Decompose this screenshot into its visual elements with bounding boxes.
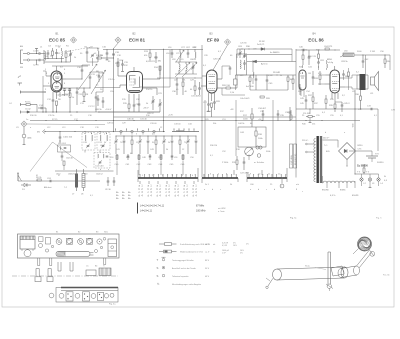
svg-text:+100 V: +100 V (105, 109, 112, 111)
component pair (172, 78, 188, 95)
test point diamond (21, 121, 105, 127)
svg-text:L4=L2=L6=L9=L7=L11: L4=L2=L6=L9=L7=L11 (140, 205, 165, 208)
wire (67, 87, 91, 88)
resistor R11 (96, 55, 114, 59)
bank labels (56, 174, 104, 176)
cluster (299, 84, 327, 114)
resistor R26 (222, 85, 237, 89)
fig5ab label (109, 304, 116, 306)
tube pins (120, 67, 150, 102)
cathode components (329, 102, 343, 112)
gang drop (95, 92, 103, 112)
svg-text:88 V: 88 V (205, 260, 210, 262)
capacitor C105 (59, 132, 73, 144)
rectifier label (358, 145, 364, 151)
heater taps (327, 181, 355, 188)
svg-text:C33 40: C33 40 (150, 123, 157, 125)
svg-text:C15 1n: C15 1n (108, 79, 114, 81)
side centerline (12, 275, 118, 277)
svg-text:R10 30: R10 30 (30, 115, 37, 117)
grid components (312, 71, 326, 85)
coil box 3 (94, 153, 110, 169)
svg-text:5k: 5k (104, 142, 106, 144)
test point diamond (70, 37, 76, 43)
fig label (376, 218, 382, 220)
electrolytic can (24, 250, 31, 257)
tube label ECC85 (49, 33, 66, 43)
svg-text:ECC 85: ECC 85 (49, 38, 66, 43)
note small (218, 207, 226, 213)
svg-text:5k: 5k (280, 75, 282, 77)
label (343, 103, 350, 105)
pointer rod (328, 252, 331, 284)
capacitor C4 (45, 50, 49, 59)
diode D0 (20, 109, 31, 114)
wire (44, 58, 71, 63)
mains transformer top (20, 236, 35, 251)
component cluster (115, 154, 186, 175)
spring drum (356, 235, 373, 252)
switch contact row (114, 129, 166, 135)
capacitor C34 (258, 108, 267, 121)
pointer slider (331, 266, 344, 276)
capacitor C64 (255, 75, 258, 90)
bottom outline (56, 288, 118, 303)
variable capacitor gang (77, 64, 97, 90)
coil L2 (58, 47, 62, 63)
svg-text:C15 5k: C15 5k (48, 115, 54, 117)
side right parts (86, 268, 111, 276)
svg-text:5k: 5k (230, 184, 232, 186)
svg-text:Cu 50/350: Cu 50/350 (357, 166, 368, 168)
voltage table boxes (290, 144, 297, 168)
svg-text:c: c (220, 189, 221, 191)
svg-text:FM: FM (20, 67, 23, 69)
tube socket 5 (97, 239, 102, 244)
coil L3 (87, 48, 99, 62)
capacitor C44b (300, 95, 307, 109)
tube socket 2 (67, 238, 73, 244)
wire (43, 71, 46, 86)
svg-text:50/350: 50/350 (377, 162, 384, 164)
wire bus (100, 111, 160, 113)
wire (103, 49, 203, 50)
tuning capacitor drum (56, 251, 94, 256)
wire (237, 49, 292, 72)
wire (55, 150, 114, 171)
wire (157, 78, 202, 79)
svg-text:AZ1 1n: AZ1 1n (261, 62, 269, 65)
label (353, 123, 355, 128)
wire (234, 168, 287, 178)
svg-text:B250: B250 (358, 145, 364, 147)
capacitor C24 (47, 178, 52, 182)
legend row1 (159, 243, 249, 248)
wire (247, 51, 292, 55)
svg-text:R30 1M: R30 1M (210, 145, 217, 147)
svg-text:+85 V: +85 V (143, 108, 149, 110)
svg-text:ca. V: ca. V (205, 252, 210, 254)
svg-text:d: d (100, 169, 101, 171)
wire (82, 65, 103, 92)
winding labels (322, 190, 359, 198)
wire (296, 49, 340, 50)
wire (247, 75, 296, 76)
svg-text:E92/80: E92/80 (322, 190, 329, 192)
svg-text:25k: 25k (312, 124, 315, 126)
tube ECL86 (330, 70, 340, 93)
mains transformer core (317, 136, 323, 183)
capacitor C42 (362, 54, 369, 68)
label (115, 63, 119, 65)
svg-text:R9 2k: R9 2k (36, 177, 42, 179)
label (143, 108, 149, 110)
svg-text:0,5 W: 0,5 W (222, 245, 227, 247)
ground (369, 186, 372, 187)
svg-text:5k: 5k (166, 149, 168, 151)
trimmer C6 (69, 50, 73, 62)
coil bar row (172, 129, 199, 132)
svg-text:48 V: 48 V (205, 276, 210, 278)
svg-text:R1 1k: R1 1k (25, 102, 31, 104)
fig5b label (383, 275, 389, 277)
svg-text:C47 4700: C47 4700 (240, 173, 250, 175)
resistor R34 (384, 54, 391, 68)
switch capacitor bank (114, 136, 197, 155)
coil (253, 72, 254, 84)
label (257, 41, 266, 46)
svg-text:AM abst.: AM abst. (44, 186, 52, 189)
note bar (137, 203, 139, 214)
bus end arrow (37, 130, 46, 134)
capacitor CF30 (105, 177, 115, 191)
svg-text:C30 40: C30 40 (127, 119, 135, 121)
resistor R1 (52, 48, 54, 59)
svg-text:C64 12: C64 12 (96, 174, 104, 176)
tube EM84 triode (299, 65, 306, 97)
fig label (290, 218, 297, 220)
chassis top view outline (18, 234, 120, 258)
tube ECC85 (51, 71, 62, 92)
svg-text:ca. W: ca. W (205, 244, 210, 246)
resistor R13 (144, 50, 151, 63)
ground (23, 143, 26, 144)
wire bus (45, 131, 114, 132)
junction (113, 131, 164, 132)
svg-text:C53 5k: C53 5k (301, 50, 307, 52)
wire (222, 88, 245, 95)
svg-text:ECH 81: ECH 81 (129, 38, 146, 43)
svg-text:240 V~: 240 V~ (323, 138, 330, 140)
svg-text:2x41,71: 2x41,71 (257, 44, 265, 46)
resistor R6 (56, 99, 62, 112)
svg-text:C105 100: C105 100 (63, 137, 73, 139)
wire (138, 168, 247, 178)
wire (20, 91, 46, 94)
capacitor C5 (55, 49, 58, 59)
wire (201, 45, 203, 178)
svg-text:R80 170: R80 170 (308, 56, 317, 58)
svg-text:c: c (266, 189, 267, 191)
svg-text:E10/81: E10/81 (352, 195, 359, 197)
svg-text:1n: 1n (26, 119, 28, 121)
tuning shaft (338, 266, 360, 278)
svg-text:C17 12: C17 12 (88, 106, 95, 108)
svg-text:Anschluß rechts bei Tonab.: Anschluß rechts bei Tonab. (172, 267, 197, 270)
resistor R80 (308, 50, 320, 62)
svg-text:C34 467: C34 467 (258, 108, 267, 110)
svg-text:U(B): U(B) (27, 138, 32, 140)
oscillator gang (176, 50, 184, 63)
wire (237, 49, 296, 178)
capacitor C35 (277, 110, 285, 121)
pulley bottom (326, 284, 333, 291)
component (63, 161, 65, 170)
capacitor C19 (121, 60, 129, 71)
svg-text:mit UKW: mit UKW (218, 207, 226, 210)
svg-text:10%: 10% (233, 245, 237, 247)
label pair (127, 119, 148, 121)
svg-text:R7 25: R7 25 (52, 119, 58, 121)
label (377, 162, 384, 164)
capacitor C68 (95, 95, 104, 111)
resistor R36 (355, 90, 362, 110)
wire (140, 50, 170, 87)
svg-text:Z 305: Z 305 (370, 51, 376, 53)
legend row4 (157, 266, 210, 270)
svg-text:6,3 V~: 6,3 V~ (330, 195, 337, 197)
dial cylinder (273, 267, 349, 280)
svg-text:5k: 5k (168, 142, 170, 144)
svg-text:B1: B1 (56, 232, 58, 234)
note line 1 (140, 205, 205, 208)
switch wafer bar 1 (138, 174, 198, 182)
small circles (45, 238, 105, 253)
wire (377, 109, 379, 151)
svg-text:L4=L9=L11: L4=L9=L11 (140, 210, 153, 213)
top labels (56, 231, 108, 234)
pilot lamp 3 (377, 174, 384, 186)
heater winding (323, 181, 356, 183)
svg-text:C31 40: C31 40 (140, 119, 148, 121)
pointer line (64, 47, 90, 52)
coil (327, 60, 328, 70)
component (285, 110, 292, 119)
svg-text:EF 89: EF 89 (207, 38, 220, 43)
svg-text:Teilweise kapazitiv: Teilweise kapazitiv (172, 275, 188, 278)
svg-text:c: c (302, 191, 303, 193)
svg-text:C5 42: C5 42 (25, 109, 31, 111)
capacitor C21 (151, 52, 162, 63)
svg-text:4n7 100: 4n7 100 (246, 86, 254, 88)
svg-text:S: S (157, 266, 159, 270)
resistor R19 (232, 156, 238, 170)
tube label EF89 (207, 33, 220, 43)
arrow symbol (17, 173, 21, 182)
tube pins (201, 76, 222, 101)
capacitor C13 (76, 87, 83, 105)
switch wafer bar 2 (202, 174, 238, 183)
tube socket 1 (56, 239, 62, 245)
label skala (305, 266, 326, 270)
svg-text:C04 R79: C04 R79 (324, 46, 333, 48)
ground (35, 49, 38, 55)
test cap (289, 107, 292, 121)
svg-text:Netz: Netz (104, 231, 108, 234)
svg-text:C83 5k: C83 5k (341, 61, 349, 63)
wire bus (114, 116, 297, 118)
svg-text:C68 5k: C68 5k (95, 109, 103, 111)
wire (222, 66, 231, 79)
svg-text:5k: 5k (100, 55, 102, 57)
tuning gang C8 (86, 48, 95, 62)
svg-text:U (ZF 460k): U (ZF 460k) (291, 155, 293, 165)
mounting legs (38, 258, 106, 266)
secondary wire (323, 138, 339, 148)
value labels (26, 51, 378, 193)
svg-text:5%: 5% (240, 253, 243, 255)
capacitor C47 (240, 157, 250, 175)
svg-text:100 MHz: 100 MHz (196, 210, 206, 213)
speaker frame (108, 239, 117, 257)
wire (356, 151, 373, 156)
coil L22 (193, 47, 197, 60)
wire (354, 150, 378, 175)
diode D1 (21, 183, 31, 191)
svg-text:C26 170: C26 170 (213, 59, 222, 61)
wire (163, 49, 165, 131)
capacitor C40 (299, 47, 304, 52)
output transformer (357, 55, 368, 90)
svg-text:C5: C5 (86, 266, 88, 268)
resistor R4 (20, 102, 37, 113)
svg-text:1k: 1k (50, 56, 52, 58)
wire (18, 180, 100, 182)
diode D2 (238, 46, 265, 50)
cluster right (341, 61, 350, 90)
tube EF89 (207, 70, 218, 93)
grid label (45, 69, 66, 93)
bottom parts (49, 292, 114, 301)
fuse (384, 176, 388, 182)
primary winding (314, 139, 316, 182)
pot box (238, 127, 266, 147)
legend row5 (157, 274, 210, 278)
svg-text:0,5M: 0,5M (268, 75, 273, 77)
svg-text:S: S (157, 274, 159, 278)
diode D3 (253, 60, 269, 65)
label (240, 96, 271, 100)
capacitor C12 (47, 97, 54, 112)
wire (40, 54, 44, 61)
coupling diagonal (30, 142, 87, 172)
svg-text:R9 64R: R9 64R (273, 72, 281, 74)
capacitor C67 (186, 47, 191, 58)
small rect (46, 238, 51, 245)
label (391, 110, 396, 112)
tube pins (325, 66, 346, 102)
svg-text:Fig. 5a: Fig. 5a (109, 304, 116, 306)
side labels (86, 265, 105, 268)
cord hook (266, 278, 273, 288)
wire (52, 62, 88, 67)
svg-text:d: d (274, 189, 275, 191)
svg-text:+88 V: +88 V (206, 111, 212, 113)
wire (250, 89, 288, 91)
resistor R2 (65, 50, 67, 62)
tube socket 4 (87, 238, 93, 244)
svg-text:96 V: 96 V (205, 268, 210, 270)
svg-text:2k: 2k (74, 57, 76, 59)
svg-text:L60 C61: L60 C61 (58, 143, 67, 145)
svg-text:C44 5k: C44 5k (238, 123, 244, 125)
wire (236, 100, 273, 178)
tube socket 3 (78, 239, 84, 245)
svg-text:220 V~: 220 V~ (302, 140, 309, 142)
coil box 2 (97, 133, 110, 151)
svg-text:C28 40: C28 40 (107, 123, 114, 125)
wire (20, 91, 46, 93)
oscillator coils (172, 59, 197, 82)
oscillator cap C27 (171, 50, 174, 59)
svg-text:M2-D: M2-D (327, 59, 333, 61)
cluster L60 (58, 143, 71, 152)
antenna plug contacts (27, 52, 39, 61)
svg-text:C25 80: C25 80 (240, 43, 247, 45)
wire (322, 176, 324, 183)
wire (237, 48, 292, 49)
side pins (35, 269, 53, 282)
drum hook (353, 249, 374, 257)
label M2D (327, 59, 333, 64)
resistor R9 (36, 177, 42, 181)
switch pin labels (139, 181, 198, 197)
label (27, 138, 32, 140)
wire (95, 85, 120, 88)
cluster (299, 50, 313, 69)
wire (340, 55, 390, 70)
svg-text:CF 30: CF 30 (105, 189, 112, 191)
capacitor C2 (33, 59, 40, 67)
svg-text:Fig. 5c: Fig. 5c (290, 218, 297, 220)
coil L1 (40, 47, 46, 65)
label row (48, 46, 100, 51)
svg-text:U34 (7): U34 (7) (68, 174, 75, 176)
pin column (116, 192, 131, 200)
wire bus (20, 111, 160, 112)
resistor R8 (83, 87, 89, 101)
svg-text:87 MHz: 87 MHz (196, 205, 205, 208)
svg-text:B3: B3 (96, 232, 98, 234)
legend row3 (157, 257, 210, 262)
resistor R31 (324, 46, 333, 50)
component pair (191, 80, 201, 98)
connector circle (22, 127, 26, 143)
svg-text:+245 V: +245 V (343, 103, 350, 105)
switch wafer bar 3 (247, 174, 287, 182)
tube ECH81 (127, 72, 143, 93)
electrolytic C48 (230, 75, 247, 94)
tube label ECL86 (308, 33, 324, 43)
svg-text:4n RA410: 4n RA410 (270, 51, 280, 54)
legend row6 (157, 282, 202, 286)
resistor R42 (287, 75, 293, 90)
wire (66, 78, 83, 79)
svg-text:C62 40: C62 40 (66, 158, 74, 160)
trimmer pair (238, 49, 246, 58)
resistor R17 (243, 108, 253, 127)
svg-text:L52 C63: L52 C63 (96, 166, 105, 168)
